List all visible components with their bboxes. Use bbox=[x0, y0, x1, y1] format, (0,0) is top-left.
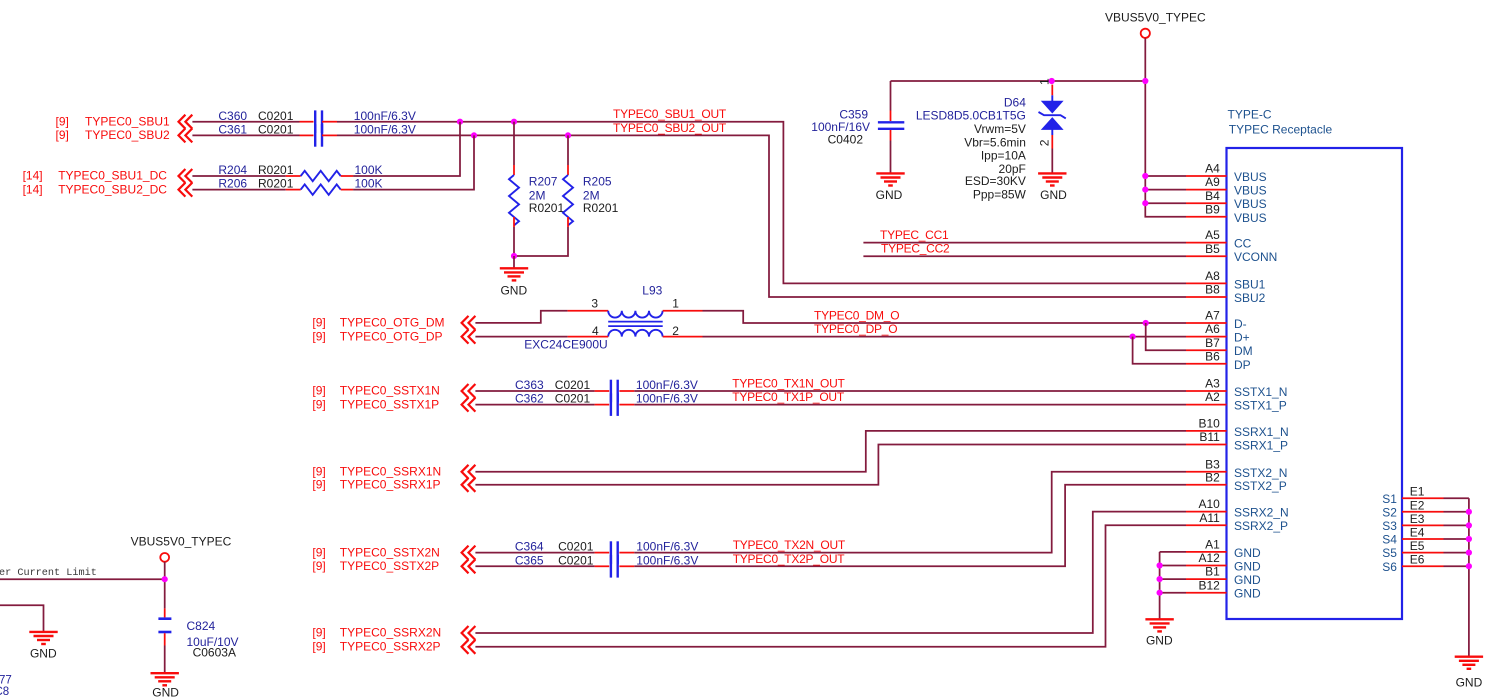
off-sheet chevron TYPEC0_SBU2_DC bbox=[179, 183, 193, 197]
svg-text:GND: GND bbox=[1234, 546, 1261, 560]
wire pin E2 to shield bus bbox=[1444, 511, 1469, 513]
wire C824 to GND bbox=[164, 646, 166, 674]
capacitor C365 bbox=[611, 555, 618, 578]
svg-text:R0201: R0201 bbox=[258, 163, 294, 177]
svg-text:GND: GND bbox=[876, 188, 903, 202]
svg-text:TYPEC0_SSRX2N: TYPEC0_SSRX2N bbox=[340, 626, 441, 640]
svg-text:EXC24CE900U: EXC24CE900U bbox=[524, 338, 607, 352]
off-sheet chevron TYPEC0_SSTX2P bbox=[462, 559, 476, 573]
svg-text:SSRX1_N: SSRX1_N bbox=[1234, 425, 1289, 439]
wire TYPEC0_SBU2 from chevron to C361 bbox=[192, 134, 299, 136]
pin 1 of C365 bbox=[595, 565, 610, 567]
svg-text:R205: R205 bbox=[583, 175, 612, 189]
pin A6 of connector bbox=[1186, 336, 1227, 338]
svg-text:C0201: C0201 bbox=[558, 553, 594, 567]
svg-text:C360: C360 bbox=[218, 109, 247, 123]
pin B8 of connector bbox=[1186, 296, 1227, 298]
svg-text:A11: A11 bbox=[1199, 511, 1220, 525]
svg-text:S6: S6 bbox=[1382, 560, 1397, 574]
junction VBUS bus / top wire bbox=[1142, 78, 1148, 84]
junction SBU2 / R205 bbox=[565, 132, 571, 138]
capacitor C359 bbox=[878, 122, 904, 129]
svg-text:B9: B9 bbox=[1205, 202, 1220, 216]
svg-text:TYPEC0_SBU1: TYPEC0_SBU1 bbox=[85, 114, 170, 128]
pin 2 of C361 bbox=[322, 134, 337, 136]
wire TYPEC0_OTG_DP to L93 pin 4 bbox=[475, 336, 567, 338]
svg-text:B5: B5 bbox=[1205, 242, 1220, 256]
svg-text:DM: DM bbox=[1234, 344, 1253, 358]
pin 1 of R204 bbox=[286, 175, 301, 177]
svg-text:100nF/6.3V: 100nF/6.3V bbox=[636, 378, 698, 392]
svg-text:GND: GND bbox=[1040, 188, 1067, 202]
pin 1 of C364 bbox=[595, 552, 610, 554]
junction VBUS5V0_TYPEC / current limit wire bbox=[162, 576, 168, 582]
pin B12 of connector bbox=[1186, 592, 1227, 594]
junction SBU1 / R204 bbox=[457, 119, 463, 125]
pin 2 of L93 bbox=[663, 336, 703, 338]
wire GND bus vertical bbox=[1159, 552, 1161, 619]
wire pin E6 to shield bus bbox=[1444, 565, 1469, 567]
svg-text:VBUS: VBUS bbox=[1234, 184, 1267, 198]
svg-text:B8: B8 bbox=[1205, 283, 1220, 297]
svg-text:[9]: [9] bbox=[56, 128, 69, 142]
svg-text:C362: C362 bbox=[515, 392, 544, 406]
wire over-current limit net bbox=[0, 578, 165, 580]
junction GND bus / B12 bbox=[1157, 590, 1163, 596]
svg-text:D+: D+ bbox=[1234, 331, 1250, 345]
svg-text:2M: 2M bbox=[529, 188, 546, 202]
pin 2 of C365 bbox=[619, 565, 634, 567]
svg-text:[9]: [9] bbox=[56, 114, 69, 128]
off-sheet chevron TYPEC0_SSRX2P bbox=[462, 640, 476, 654]
off-sheet chevron TYPEC0_SSRX1N bbox=[462, 465, 476, 479]
wire TYPEC0_SSTX2N to C364 bbox=[475, 552, 594, 554]
pin 2 of R207 bbox=[513, 217, 515, 227]
svg-text:TYPEC0_TX1P_OUT: TYPEC0_TX1P_OUT bbox=[732, 390, 845, 404]
svg-text:DP: DP bbox=[1234, 358, 1251, 372]
resistor R205 bbox=[563, 175, 573, 225]
svg-text:R206: R206 bbox=[218, 177, 247, 191]
pin 1 of C359 bbox=[890, 111, 892, 122]
svg-text:TYPEC0_SSTX2N: TYPEC0_SSTX2N bbox=[340, 545, 440, 559]
wire R206 up to SBU2 net bbox=[353, 135, 474, 189]
wire pin E1 to shield bus bbox=[1444, 497, 1469, 499]
svg-text:[9]: [9] bbox=[312, 559, 325, 573]
wire VBUS5V0_TYPEC to C824 bbox=[164, 562, 166, 609]
ground below connector GND pins bbox=[1145, 619, 1173, 631]
pin E5 of connector (shield) bbox=[1402, 552, 1444, 554]
svg-text:C8: C8 bbox=[0, 686, 9, 698]
common-mode choke L93 winding 3-1 bbox=[608, 311, 662, 318]
svg-text:VBUS: VBUS bbox=[1234, 170, 1267, 184]
svg-text:B11: B11 bbox=[1199, 430, 1220, 444]
svg-text:Vrwm=5V: Vrwm=5V bbox=[974, 122, 1026, 136]
svg-text:B12: B12 bbox=[1198, 578, 1220, 592]
wire TYPEC0_SBU1_OUT to pin A8 bbox=[337, 122, 1186, 284]
svg-text:GND: GND bbox=[30, 646, 57, 660]
svg-text:C0201: C0201 bbox=[258, 109, 294, 123]
svg-text:S1: S1 bbox=[1382, 492, 1397, 506]
junction SBU2 / R206 bbox=[471, 132, 477, 138]
svg-text:TYPEC0_SBU1_DC: TYPEC0_SBU1_DC bbox=[58, 169, 167, 183]
wire TYPEC0_TX2P_OUT to pin B2 bbox=[634, 485, 1186, 567]
pin 1 of C360 bbox=[300, 121, 314, 123]
wire TYPEC0_SSTX2P to C365 bbox=[475, 565, 594, 567]
svg-text:[9]: [9] bbox=[312, 626, 325, 640]
wire pin A1 to GND bus bbox=[1160, 551, 1186, 553]
svg-text:VBUS: VBUS bbox=[1234, 197, 1267, 211]
svg-text:SSTX2_P: SSTX2_P bbox=[1234, 479, 1287, 493]
svg-text:TYPEC0_TX2N_OUT: TYPEC0_TX2N_OUT bbox=[733, 538, 846, 552]
wire R207 to ground node bbox=[513, 227, 515, 256]
power port circle VBUS5V0_TYPEC (bottom) bbox=[160, 553, 169, 562]
svg-text:A5: A5 bbox=[1205, 228, 1220, 242]
pin A5 of connector bbox=[1186, 242, 1227, 244]
pin E1 of connector (shield) bbox=[1402, 497, 1444, 499]
svg-text:C361: C361 bbox=[218, 123, 247, 137]
off-sheet chevron TYPEC0_SSRX2N bbox=[462, 626, 476, 640]
svg-text:GND: GND bbox=[1234, 560, 1261, 574]
wire TYPEC0_TX1N_OUT to pin A3 bbox=[634, 390, 1186, 392]
svg-text:GND: GND bbox=[500, 283, 527, 297]
wire TYPEC0_SBU1_DC to R204 bbox=[192, 175, 285, 177]
capacitor C360 bbox=[315, 110, 322, 133]
pin 1 of R205 bbox=[567, 165, 569, 175]
svg-text:[9]: [9] bbox=[312, 397, 325, 411]
pin B2 of connector bbox=[1186, 484, 1227, 486]
svg-text:CC: CC bbox=[1234, 237, 1252, 251]
svg-text:A10: A10 bbox=[1198, 497, 1220, 511]
wire to left ground bbox=[0, 605, 44, 632]
svg-text:C824: C824 bbox=[187, 619, 216, 633]
off-sheet chevron TYPEC0_SBU2 bbox=[179, 128, 193, 142]
svg-text:Ppp=85W: Ppp=85W bbox=[973, 188, 1027, 202]
wire pin A12 to GND bus bbox=[1160, 565, 1186, 567]
wire TYPEC0_SSRX2N to pin A10 bbox=[475, 512, 1186, 633]
svg-text:S4: S4 bbox=[1382, 533, 1397, 547]
wire D64 to GND bbox=[1051, 149, 1053, 174]
ground below D64 bbox=[1038, 173, 1066, 185]
off-sheet chevron TYPEC0_SSTX1P bbox=[462, 398, 476, 412]
wire VBUS5V0_TYPEC vertical bus to pin B9 bbox=[1145, 38, 1186, 217]
pin A7 of connector bbox=[1186, 322, 1227, 324]
pin A11 of connector bbox=[1186, 524, 1227, 526]
capacitor C824 bbox=[158, 619, 171, 632]
pin B4 of connector bbox=[1186, 202, 1227, 204]
svg-text:LESD8D5.0CB1T5G: LESD8D5.0CB1T5G bbox=[916, 108, 1026, 122]
svg-text:100nF/6.3V: 100nF/6.3V bbox=[636, 553, 698, 567]
pin 2 of C364 bbox=[619, 552, 634, 554]
wire TYPEC0_SBU2_DC to R206 bbox=[192, 189, 285, 191]
pin 2 of C363 bbox=[619, 390, 634, 392]
pin E2 of connector (shield) bbox=[1402, 511, 1444, 513]
junction shield bus / E4 bbox=[1466, 536, 1472, 542]
svg-text:2: 2 bbox=[1038, 139, 1052, 146]
pin 1 of L93 bbox=[663, 310, 703, 312]
wire pin E4 to shield bus bbox=[1444, 538, 1469, 540]
junction shield bus / E6 bbox=[1466, 563, 1472, 569]
svg-text:L93: L93 bbox=[642, 284, 662, 298]
svg-text:R0201: R0201 bbox=[258, 177, 294, 191]
svg-text:B2: B2 bbox=[1205, 470, 1220, 484]
svg-text:TYPEC0_OTG_DM: TYPEC0_OTG_DM bbox=[340, 316, 445, 330]
svg-text:TYPEC0_SBU2: TYPEC0_SBU2 bbox=[85, 128, 170, 142]
svg-text:SSRX1_P: SSRX1_P bbox=[1234, 439, 1288, 453]
wire DM branch to pin B7 bbox=[1146, 323, 1186, 350]
svg-text:TYPEC_CC2: TYPEC_CC2 bbox=[881, 242, 950, 256]
svg-text:SBU2: SBU2 bbox=[1234, 291, 1266, 305]
pin E3 of connector (shield) bbox=[1402, 524, 1444, 526]
svg-text:C0201: C0201 bbox=[555, 392, 591, 406]
svg-text:A4: A4 bbox=[1205, 162, 1220, 176]
wire TYPEC0_TX1P_OUT to pin A2 bbox=[634, 404, 1186, 406]
svg-text:VBUS: VBUS bbox=[1234, 211, 1267, 225]
svg-text:E6: E6 bbox=[1410, 553, 1425, 567]
svg-text:VBUS5V0_TYPEC: VBUS5V0_TYPEC bbox=[1105, 11, 1206, 25]
junction shield bus / E3 bbox=[1466, 522, 1472, 528]
off-sheet chevron TYPEC0_SSTX2N bbox=[462, 546, 476, 560]
wire TYPEC_CC2 to pin B5 bbox=[863, 255, 1186, 257]
svg-text:[9]: [9] bbox=[312, 478, 325, 492]
svg-text:C365: C365 bbox=[515, 553, 544, 567]
svg-text:1: 1 bbox=[1038, 78, 1052, 85]
svg-text:[9]: [9] bbox=[312, 545, 325, 559]
pin B9 of connector bbox=[1186, 216, 1227, 218]
svg-text:A9: A9 bbox=[1205, 175, 1220, 189]
wire TYPEC0_SSRX2P to pin A11 bbox=[475, 525, 1186, 647]
svg-text:E4: E4 bbox=[1410, 526, 1425, 540]
svg-text:100K: 100K bbox=[355, 163, 383, 177]
svg-text:E5: E5 bbox=[1410, 539, 1425, 553]
capacitor C362 bbox=[611, 393, 618, 416]
pin 2 lead of D64 bbox=[1051, 135, 1053, 149]
pin 4 of L93 bbox=[568, 336, 609, 338]
wire TYPEC0_SSTX1P to C362 bbox=[475, 404, 594, 406]
pin A1 of connector bbox=[1186, 551, 1227, 553]
power port circle VBUS5V0_TYPEC (top) bbox=[1141, 29, 1150, 38]
svg-text:R0201: R0201 bbox=[583, 201, 619, 215]
pin 1 of C824 bbox=[164, 608, 166, 617]
pin 1 of C362 bbox=[595, 404, 610, 406]
svg-text:TYPEC0_SSTX1N: TYPEC0_SSTX1N bbox=[340, 384, 440, 398]
common-mode choke L93 winding 4-2 bbox=[608, 330, 662, 337]
svg-text:TYPEC0_SSRX2P: TYPEC0_SSRX2P bbox=[340, 640, 441, 654]
wire SBU2 down to R205 bbox=[567, 135, 569, 165]
wire R204 up to SBU1 net bbox=[353, 122, 460, 176]
svg-text:R204: R204 bbox=[218, 163, 247, 177]
svg-text:TYPEC0_TX1N_OUT: TYPEC0_TX1N_OUT bbox=[732, 377, 845, 391]
junction shield bus / E2 bbox=[1466, 509, 1472, 515]
junction VBUS / A9 bbox=[1142, 187, 1148, 193]
svg-text:TYPEC0_SBU2_DC: TYPEC0_SBU2_DC bbox=[58, 182, 167, 196]
svg-text:[9]: [9] bbox=[312, 384, 325, 398]
svg-text:100nF/6.3V: 100nF/6.3V bbox=[354, 109, 416, 123]
wire pin E3 to shield bus bbox=[1444, 524, 1469, 526]
wire pin B12 to GND bus bbox=[1160, 592, 1186, 594]
svg-text:SBU1: SBU1 bbox=[1234, 277, 1266, 291]
svg-text:S2: S2 bbox=[1382, 505, 1397, 519]
wire C359 to GND bbox=[890, 141, 892, 174]
wire shield bus vertical to GND bbox=[1468, 498, 1470, 657]
svg-text:TYPEC0_SSTX2P: TYPEC0_SSTX2P bbox=[340, 559, 439, 573]
off-sheet chevron TYPEC0_OTG_DP bbox=[462, 330, 476, 344]
ground below C359 bbox=[876, 173, 904, 185]
ground below R207/R205 bbox=[500, 268, 528, 280]
svg-text:E3: E3 bbox=[1410, 512, 1425, 526]
svg-text:R0201: R0201 bbox=[529, 201, 565, 215]
wire R205 to ground node bbox=[514, 227, 568, 256]
pin A12 of connector bbox=[1186, 565, 1227, 567]
svg-text:TYPEC0_DM_O: TYPEC0_DM_O bbox=[814, 308, 899, 322]
svg-text:C0603A: C0603A bbox=[193, 645, 236, 659]
svg-text:ESD=30KV: ESD=30KV bbox=[965, 174, 1026, 188]
resistor R204 bbox=[301, 171, 341, 181]
wire TYPEC0_SSRX1P to pin B11 bbox=[475, 445, 1186, 485]
capacitor C361 bbox=[315, 124, 322, 147]
pin B11 of connector bbox=[1186, 444, 1227, 446]
junction GND bus / A12 bbox=[1157, 562, 1163, 568]
pin A8 of connector bbox=[1186, 282, 1227, 284]
svg-text:TYPEC0_SSRX1N: TYPEC0_SSRX1N bbox=[340, 465, 441, 479]
pin 2 of C359 bbox=[890, 130, 892, 141]
wire VBUS down to C359 bbox=[890, 81, 892, 111]
wire TYPEC0_DP_O to pin A6 bbox=[703, 336, 1187, 338]
junction DP net / B6 branch bbox=[1130, 334, 1136, 340]
off-sheet chevron TYPEC0_SSTX1N bbox=[462, 384, 476, 398]
wire pin E5 to shield bus bbox=[1444, 552, 1469, 554]
svg-text:VBUS5V0_TYPEC: VBUS5V0_TYPEC bbox=[131, 534, 232, 548]
TVS diode D64 bbox=[1039, 95, 1066, 135]
wire VBUS to pin A4 bbox=[1145, 175, 1186, 177]
svg-text:TYPEC0_SBU1_OUT: TYPEC0_SBU1_OUT bbox=[613, 107, 727, 121]
svg-text:A3: A3 bbox=[1205, 377, 1220, 391]
pin B5 of connector bbox=[1186, 255, 1227, 257]
svg-text:SSTX2_N: SSTX2_N bbox=[1234, 466, 1287, 480]
svg-text:TYPEC Receptacle: TYPEC Receptacle bbox=[1229, 123, 1333, 137]
svg-text:E1: E1 bbox=[1410, 485, 1425, 499]
svg-text:3: 3 bbox=[591, 296, 598, 310]
svg-text:VCONN: VCONN bbox=[1234, 250, 1277, 264]
pin 2 of C824 bbox=[164, 633, 166, 645]
svg-text:Vbr=5.6min: Vbr=5.6min bbox=[964, 135, 1026, 149]
junction VBUS / B4 bbox=[1142, 200, 1148, 206]
svg-text:Ipp=10A: Ipp=10A bbox=[981, 149, 1026, 163]
svg-text:TYPEC0_DP_O: TYPEC0_DP_O bbox=[814, 322, 897, 336]
pin B7 of connector bbox=[1186, 349, 1227, 351]
svg-text:A8: A8 bbox=[1205, 269, 1220, 283]
svg-text:A7: A7 bbox=[1205, 309, 1220, 323]
wire TYPEC0_OTG_DM to L93 pin 3 bbox=[475, 311, 567, 323]
pin 2 of C362 bbox=[619, 404, 634, 406]
svg-text:S5: S5 bbox=[1382, 546, 1397, 560]
wire VBUS to pin A9 bbox=[1145, 189, 1186, 191]
junction VBUS / D64 bbox=[1049, 78, 1055, 84]
svg-text:B3: B3 bbox=[1205, 457, 1220, 471]
svg-text:C364: C364 bbox=[515, 540, 544, 554]
connector J TYPE-C receptacle body bbox=[1227, 148, 1403, 619]
svg-text:C0201: C0201 bbox=[555, 378, 591, 392]
svg-text:100K: 100K bbox=[355, 177, 383, 191]
svg-text:SSTX1_N: SSTX1_N bbox=[1234, 385, 1287, 399]
ground at lower left bbox=[29, 632, 57, 644]
svg-text:GND: GND bbox=[152, 686, 179, 699]
pin E6 of connector (shield) bbox=[1402, 565, 1444, 567]
svg-text:B4: B4 bbox=[1205, 189, 1220, 203]
svg-text:C0402: C0402 bbox=[828, 133, 864, 147]
pin 2 of R206 bbox=[341, 189, 353, 191]
svg-text:SSRX2_P: SSRX2_P bbox=[1234, 519, 1288, 533]
svg-text:B10: B10 bbox=[1198, 417, 1220, 431]
svg-text:2M: 2M bbox=[583, 188, 600, 202]
pin E4 of connector (shield) bbox=[1402, 538, 1444, 540]
pin 1 lead of D64 bbox=[1051, 85, 1053, 96]
wire VBUS top horizontal to C359/D64 bbox=[891, 80, 1146, 82]
svg-text:C0201: C0201 bbox=[258, 123, 294, 137]
svg-text:TYPEC_CC1: TYPEC_CC1 bbox=[880, 228, 949, 242]
capacitor C363 bbox=[611, 380, 618, 403]
svg-text:TYPEC0_SSRX1P: TYPEC0_SSRX1P bbox=[340, 478, 441, 492]
off-sheet chevron TYPEC0_SBU1 bbox=[179, 115, 193, 129]
pin A9 of connector bbox=[1186, 189, 1227, 191]
svg-text:A12: A12 bbox=[1198, 551, 1220, 565]
svg-text:100nF/6.3V: 100nF/6.3V bbox=[636, 392, 698, 406]
ground below shield bus bbox=[1455, 657, 1483, 669]
svg-text:GND: GND bbox=[1146, 633, 1173, 647]
svg-text:S3: S3 bbox=[1382, 519, 1397, 533]
off-sheet chevron TYPEC0_OTG_DM bbox=[462, 316, 476, 330]
svg-text:TYPE-C: TYPE-C bbox=[1228, 108, 1272, 122]
svg-text:TYPEC0_TX2P_OUT: TYPEC0_TX2P_OUT bbox=[733, 552, 846, 566]
wire SBU1 down to R207 bbox=[513, 122, 515, 165]
svg-text:[9]: [9] bbox=[312, 329, 325, 343]
pin B1 of connector bbox=[1186, 578, 1227, 580]
svg-text:B7: B7 bbox=[1205, 336, 1220, 350]
svg-text:A1: A1 bbox=[1205, 538, 1220, 552]
svg-text:100nF/6.3V: 100nF/6.3V bbox=[636, 540, 698, 554]
resistor R207 bbox=[509, 175, 519, 225]
junction SBU1 / R207 bbox=[511, 119, 517, 125]
junction DM net / B7 branch bbox=[1143, 320, 1149, 326]
wire ground node to GND symbol bbox=[513, 256, 515, 268]
svg-text:SSTX1_P: SSTX1_P bbox=[1234, 399, 1287, 413]
svg-text:D-: D- bbox=[1234, 317, 1247, 331]
pin B3 of connector bbox=[1186, 471, 1227, 473]
junction shield bus / E5 bbox=[1466, 550, 1472, 556]
wire TYPEC_CC1 to pin A5 bbox=[863, 242, 1186, 244]
svg-text:A2: A2 bbox=[1205, 390, 1220, 404]
svg-text:[14]: [14] bbox=[23, 169, 43, 183]
off-sheet chevron TYPEC0_SBU1_DC bbox=[179, 169, 193, 183]
pin A2 of connector bbox=[1186, 404, 1227, 406]
svg-text:C363: C363 bbox=[515, 378, 544, 392]
svg-text:77: 77 bbox=[0, 675, 12, 687]
svg-text:1: 1 bbox=[672, 296, 679, 310]
junction VBUS / A4 bbox=[1142, 173, 1148, 179]
svg-text:TYPEC0_OTG_DP: TYPEC0_OTG_DP bbox=[340, 329, 443, 343]
wire TYPEC0_SSRX1N to pin B10 bbox=[475, 431, 1186, 472]
svg-text:[14]: [14] bbox=[23, 182, 43, 196]
svg-text:GND: GND bbox=[1234, 587, 1261, 601]
off-sheet chevron TYPEC0_SSRX1P bbox=[462, 478, 476, 492]
wire DP branch to pin B6 bbox=[1133, 337, 1186, 364]
choke L93 core bbox=[608, 322, 663, 327]
svg-text:[9]: [9] bbox=[312, 316, 325, 330]
wire TYPEC0_DM_O to pin A7 bbox=[703, 311, 1187, 323]
wire TYPEC0_TX2N_OUT to pin B3 bbox=[634, 472, 1186, 553]
pin 2 of R204 bbox=[341, 175, 353, 177]
svg-text:SSRX2_N: SSRX2_N bbox=[1234, 506, 1289, 520]
svg-text:B1: B1 bbox=[1205, 565, 1220, 579]
